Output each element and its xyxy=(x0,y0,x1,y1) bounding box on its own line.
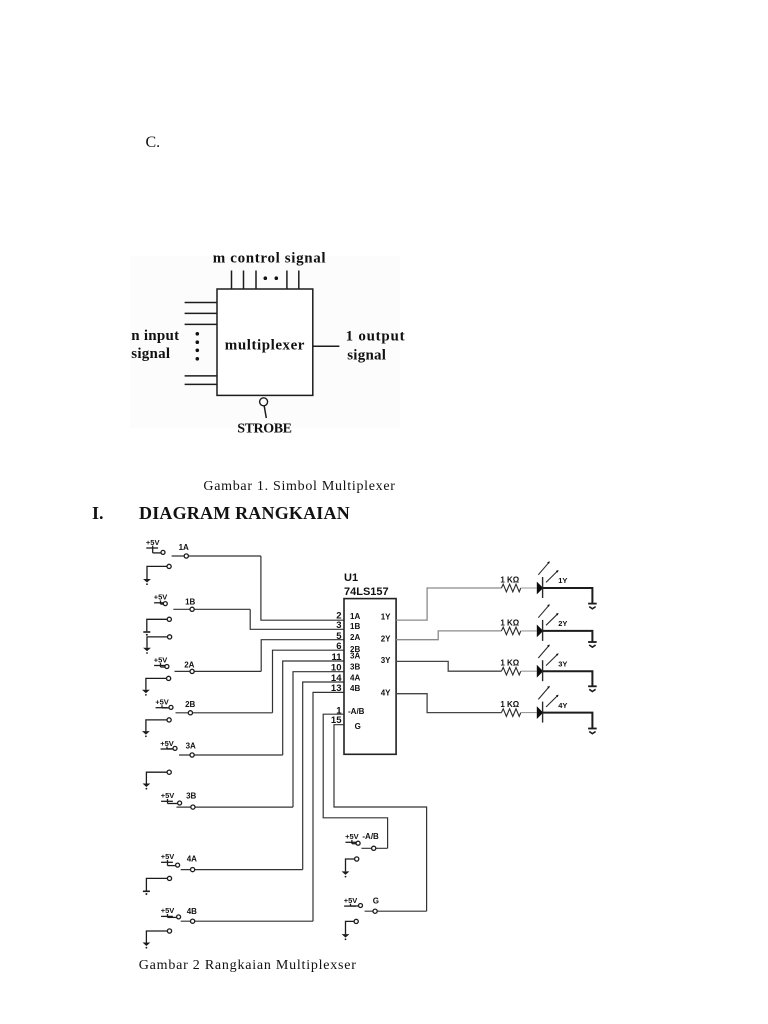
svg-text:1B: 1B xyxy=(350,622,360,631)
caption Gambar 1 xyxy=(203,479,395,494)
LED D2 (2Y) xyxy=(537,604,559,641)
chip input label 2B xyxy=(350,645,360,654)
figure 1 pale background xyxy=(130,256,400,428)
switch 1A pole terminal xyxy=(184,554,188,558)
chip enable label G xyxy=(355,722,361,731)
svg-text:6: 6 xyxy=(336,641,341,652)
switch 4A lower throw terminal xyxy=(167,876,171,880)
svg-text:13: 13 xyxy=(331,683,342,694)
pin number 13 xyxy=(331,683,342,694)
svg-text:74LS157: 74LS157 xyxy=(344,586,389,598)
svg-text:1 KΩ: 1 KΩ xyxy=(500,618,519,627)
svg-text:signal: signal xyxy=(131,346,170,362)
wire: switch 3B pole to column xyxy=(177,806,294,808)
svg-text:+5V: +5V xyxy=(154,593,168,602)
control input line 3 xyxy=(255,271,257,290)
wire: switch G pole xyxy=(365,910,427,912)
chip input label 1B xyxy=(350,622,360,631)
heading letter C. xyxy=(146,134,161,151)
svg-text:1 KΩ: 1 KΩ xyxy=(500,575,519,584)
data input line 2 xyxy=(185,312,217,314)
resistor R4 1 K&#937; xyxy=(500,700,520,716)
wire: switch -A/B pole xyxy=(361,847,387,849)
svg-text:multiplexer: multiplexer xyxy=(225,337,305,353)
svg-text:4B: 4B xyxy=(187,907,197,916)
op chip designator U1 xyxy=(344,572,358,584)
chip input label 1A xyxy=(350,612,360,621)
power +5V supply for 3B xyxy=(161,791,182,805)
svg-text:1A: 1A xyxy=(179,543,189,552)
pin number 2 xyxy=(336,611,341,622)
chip output label 1Y xyxy=(381,613,391,622)
wire: 1A lower throw to ground xyxy=(147,566,167,579)
vertical ellipsis dots on inputs xyxy=(196,332,200,361)
switch 3A pole terminal xyxy=(190,753,194,757)
chip input label 3A xyxy=(350,651,360,660)
svg-text:3: 3 xyxy=(336,620,341,631)
switch 2A pole terminal xyxy=(190,669,194,673)
wire: switch 1A pole to column xyxy=(172,555,261,557)
pin number 1 xyxy=(336,705,342,716)
power +5V supply for 2B xyxy=(155,698,173,710)
chip U1 74LS157 body xyxy=(344,599,396,755)
wire: 4B lower throw to ground xyxy=(146,931,167,943)
wire: 4A lower throw to ground xyxy=(146,878,167,890)
chip input label 3B xyxy=(350,663,360,672)
svg-text:I.: I. xyxy=(92,503,104,523)
switch label 2B xyxy=(185,700,195,709)
svg-text:1 output: 1 output xyxy=(346,329,406,345)
svg-text:2Y: 2Y xyxy=(558,619,567,628)
wire: chip 2Y output to resistor xyxy=(396,631,501,640)
switch label 3A xyxy=(186,741,196,750)
svg-text:Gambar 2 Rangkaian Multiplexse: Gambar 2 Rangkaian Multiplexser xyxy=(139,958,357,973)
power +5V supply for G xyxy=(344,896,363,908)
wire: 2A->pin5 xyxy=(261,640,344,672)
wire: 4A->pin14 xyxy=(303,682,344,870)
wire: 3B->pin10 xyxy=(293,672,344,807)
switch -A/B pole terminal xyxy=(372,846,376,850)
data input line 5 xyxy=(185,383,217,385)
svg-text:G: G xyxy=(355,722,361,731)
control input line 4 xyxy=(286,271,288,290)
wire: 2B lower throw to ground xyxy=(146,720,167,731)
ground (1A) xyxy=(143,579,151,585)
wire: LED D2 cathode to ground xyxy=(543,631,593,642)
wire: G lower throw to ground xyxy=(346,921,355,934)
net label 1Y xyxy=(558,576,567,585)
chip part number 74LS157 xyxy=(344,586,389,598)
switch 3B pole terminal xyxy=(191,805,195,809)
svg-text:1 KΩ: 1 KΩ xyxy=(500,659,519,668)
svg-text:+5V: +5V xyxy=(161,791,175,800)
svg-text:3B: 3B xyxy=(350,663,360,672)
svg-text:11: 11 xyxy=(331,652,342,663)
wire: chip 3Y output to resistor xyxy=(396,661,501,671)
net label 2Y xyxy=(558,619,567,628)
switch 2B lower throw terminal xyxy=(167,718,171,722)
wire: 1A->pin2 xyxy=(261,556,344,620)
switch 1A lower throw terminal xyxy=(167,564,171,568)
wire: chip 1Y output to resistor xyxy=(396,588,501,620)
switch -A/B lower throw terminal xyxy=(355,857,359,861)
chip input label 4B xyxy=(350,684,360,693)
switch 4A pole terminal xyxy=(191,868,195,872)
chip output label 3Y xyxy=(381,656,391,665)
ground (2A) xyxy=(142,690,150,696)
svg-text:3Y: 3Y xyxy=(558,659,567,668)
wire: 1B lower throw to ground xyxy=(147,619,167,631)
resistor R2 1 K&#937; xyxy=(500,618,520,634)
pin number 5 xyxy=(336,631,342,642)
wire: 3A lower throw to ground xyxy=(146,772,167,783)
wire: switch 3A pole to column xyxy=(179,754,283,756)
svg-text:2B: 2B xyxy=(185,700,195,709)
pin number 3 xyxy=(336,620,341,631)
svg-text:C.: C. xyxy=(146,134,161,151)
ground (2Y return) xyxy=(588,642,597,647)
control input line 2 xyxy=(243,271,245,290)
ellipsis dots between control lines xyxy=(264,276,279,280)
switch 1B lower throw terminal xyxy=(167,617,171,621)
wire: switch 1B pole to column xyxy=(173,608,250,610)
wire: resistor R4 to LED D4 xyxy=(521,712,537,714)
svg-text:+5V: +5V xyxy=(345,832,359,841)
svg-text:3B: 3B xyxy=(186,792,196,801)
svg-text:4B: 4B xyxy=(350,684,360,693)
caption Gambar 2 xyxy=(139,958,357,973)
ground (1Y return) xyxy=(588,604,597,609)
switch label 1A xyxy=(179,543,189,552)
data input line 4 xyxy=(185,375,217,377)
switch label 2A xyxy=(184,661,194,670)
wire: 1B lower throw to ground xyxy=(147,637,168,648)
ground (-A/B) xyxy=(342,871,350,877)
wire: -A/B lower throw to ground xyxy=(346,859,355,871)
net label 4Y xyxy=(558,701,567,710)
chip output label 4Y xyxy=(381,688,391,697)
svg-text:m control signal: m control signal xyxy=(213,250,326,266)
output line xyxy=(313,345,339,347)
svg-text:4A: 4A xyxy=(350,673,360,682)
switch 4B pole terminal xyxy=(191,919,195,923)
data input line 1 xyxy=(185,302,217,304)
wire: chip 4Y output to resistor xyxy=(396,694,501,713)
label: STROBE xyxy=(237,421,291,436)
switch 1B lower throw terminal xyxy=(168,635,172,639)
wire: 1B->pin3 xyxy=(250,609,344,629)
switch G pole terminal xyxy=(373,909,377,913)
ground (3Y return) xyxy=(588,686,597,691)
LED D1 (1Y) xyxy=(537,561,559,598)
power +5V supply for 1A xyxy=(146,538,165,555)
switch label 3B xyxy=(186,792,196,801)
wire: pin15 G to strobe switch xyxy=(334,725,427,912)
svg-text:n input: n input xyxy=(131,328,179,344)
svg-text:+5V: +5V xyxy=(154,655,168,664)
resistor R3 1 K&#937; xyxy=(500,659,520,675)
power +5V supply for 1B xyxy=(154,593,168,606)
wire: resistor R3 to LED D3 xyxy=(521,670,537,672)
switch label 1B xyxy=(185,598,195,607)
wire: pin1 -A/B to select switch xyxy=(323,714,387,848)
svg-text:signal: signal xyxy=(347,347,386,363)
power +5V supply for 4A xyxy=(161,852,180,867)
svg-text:-A/B: -A/B xyxy=(348,707,365,716)
svg-text:3A: 3A xyxy=(186,741,196,750)
ground (1B) xyxy=(143,632,150,636)
svg-text:-A/B: -A/B xyxy=(362,832,379,841)
multiplexer box xyxy=(217,289,313,395)
resistor R1 1 K&#937; xyxy=(500,575,520,591)
svg-text:4A: 4A xyxy=(187,855,197,864)
control input line 1 xyxy=(231,271,233,290)
ground (2B) xyxy=(142,731,150,737)
svg-text:2A: 2A xyxy=(350,633,360,642)
pin number 6 xyxy=(336,641,341,652)
power +5V supply for 4B xyxy=(161,906,181,919)
switch G lower throw terminal xyxy=(354,919,358,923)
switch 2A lower throw terminal xyxy=(167,676,171,680)
label: m control signal xyxy=(213,250,326,266)
svg-text:2A: 2A xyxy=(184,661,194,670)
svg-text:1Y: 1Y xyxy=(558,576,567,585)
ground (1B) xyxy=(143,648,151,654)
net label 3Y xyxy=(558,659,567,668)
svg-text:4Y: 4Y xyxy=(558,701,567,710)
svg-text:G: G xyxy=(373,896,379,905)
switch label -A/B xyxy=(362,832,379,841)
pin number 11 xyxy=(331,652,342,663)
svg-text:4Y: 4Y xyxy=(381,688,391,697)
svg-text:U1: U1 xyxy=(344,572,358,584)
svg-text:1 KΩ: 1 KΩ xyxy=(500,700,519,709)
switch 4B lower throw terminal xyxy=(167,929,171,933)
pin number 14 xyxy=(331,673,342,684)
chip output label 2Y xyxy=(381,635,391,644)
label: 1 output signal xyxy=(346,329,406,364)
wire: 2A lower throw to ground xyxy=(146,678,167,689)
ground (4A) xyxy=(143,891,150,895)
svg-text:+5V: +5V xyxy=(161,906,175,915)
svg-text:1A: 1A xyxy=(350,612,360,621)
chip select label -A/B xyxy=(348,707,365,716)
wire: switch 2A pole to column xyxy=(175,670,262,672)
svg-text:+5V: +5V xyxy=(146,538,160,547)
switch 3A lower throw terminal xyxy=(167,770,171,774)
label: n input signal xyxy=(131,328,179,362)
wire: switch 4B pole to column xyxy=(181,920,313,922)
svg-text:+5V: +5V xyxy=(344,896,358,905)
ground (4B) xyxy=(143,943,151,949)
svg-text:3A: 3A xyxy=(350,651,360,660)
wire: 2B->pin6 xyxy=(273,650,345,713)
wire: resistor R1 to LED D1 xyxy=(521,587,537,589)
svg-text:DIAGRAM RANGKAIAN: DIAGRAM RANGKAIAN xyxy=(139,503,350,523)
pin number 10 xyxy=(331,663,342,674)
wire: switch 2B pole to column xyxy=(176,712,273,714)
pin number 15 xyxy=(331,715,342,726)
wire: resistor R2 to LED D2 xyxy=(521,630,537,632)
wire: 4B->pin13 xyxy=(313,692,344,921)
wire: LED D1 cathode to ground xyxy=(543,588,593,604)
svg-text:10: 10 xyxy=(331,663,342,674)
svg-text:1Y: 1Y xyxy=(381,613,391,622)
data input line 3 xyxy=(185,323,217,325)
svg-text:3Y: 3Y xyxy=(381,656,391,665)
wire: LED D3 cathode to ground xyxy=(543,671,593,686)
wire: switch 4A pole to column xyxy=(181,869,303,871)
power +5V supply for 3A xyxy=(160,739,177,751)
svg-text:+5V: +5V xyxy=(160,739,174,748)
svg-text:STROBE: STROBE xyxy=(237,421,291,436)
STROBE terminal circle xyxy=(260,398,268,418)
power +5V supply for -A/B xyxy=(345,832,360,845)
chip input label 4A xyxy=(350,673,360,682)
LED D4 (4Y) xyxy=(537,686,559,723)
chip input label 2A xyxy=(350,633,360,642)
switch label 4A xyxy=(187,855,197,864)
switch label G xyxy=(373,896,379,905)
svg-text:2Y: 2Y xyxy=(381,635,391,644)
svg-text:+5V: +5V xyxy=(155,698,169,707)
control input line 5 xyxy=(298,271,300,290)
power +5V supply for 2A xyxy=(154,655,169,668)
ground (G) xyxy=(342,934,350,940)
switch 1B pole terminal xyxy=(190,607,194,611)
ground (3A) xyxy=(143,784,151,790)
svg-text:Gambar 1. Simbol Multiplexer: Gambar 1. Simbol Multiplexer xyxy=(203,479,395,494)
svg-text:+5V: +5V xyxy=(161,852,175,861)
ground (4Y return) xyxy=(588,729,597,734)
switch 2B pole terminal xyxy=(188,711,192,715)
LED D3 (3Y) xyxy=(537,645,559,682)
wire: 3A->pin11 xyxy=(283,661,344,755)
wire: LED D4 cathode to ground xyxy=(543,713,593,729)
svg-text:1B: 1B xyxy=(185,598,195,607)
switch label 4B xyxy=(187,907,197,916)
section heading I. DIAGRAM RANGKAIAN xyxy=(92,503,350,523)
